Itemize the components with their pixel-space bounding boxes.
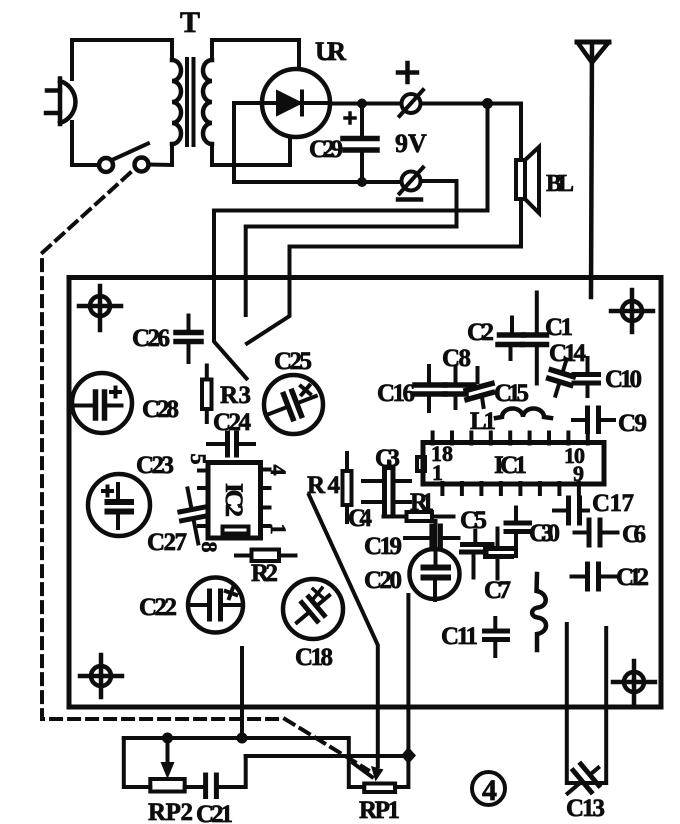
svg-text:C20: C20 — [364, 567, 402, 594]
svg-text:BL: BL — [546, 171, 574, 197]
svg-text:IC2: IC2 — [220, 483, 247, 517]
wire stub C22 to bottom rail — [240, 648, 244, 738]
svg-text:C8: C8 — [442, 345, 471, 372]
resistor R2 — [236, 550, 296, 562]
svg-text:8: 8 — [197, 542, 222, 553]
capacitor C29 — [343, 104, 377, 183]
svg-text:C12: C12 — [616, 564, 649, 591]
svg-text:C24: C24 — [213, 409, 252, 436]
wire bottom rail W1 — [124, 738, 364, 787]
capacitor C5 — [462, 531, 493, 578]
IC U1 body — [417, 443, 604, 485]
transformer T secondary coil — [203, 60, 212, 144]
circled figure 4 — [472, 772, 505, 807]
svg-text:C29: C29 — [309, 136, 343, 163]
capacitor C3 C4 plates — [363, 462, 410, 515]
svg-text:C9: C9 — [618, 410, 647, 437]
svg-text:5: 5 — [186, 454, 211, 465]
capacitor C2 — [498, 318, 524, 360]
capacitor C9 — [573, 408, 614, 432]
svg-text:C27: C27 — [147, 529, 187, 556]
svg-text:C2: C2 — [467, 319, 494, 346]
minus sign battery — [398, 197, 421, 202]
transformer T primary coil — [172, 60, 181, 144]
IC2 pins left — [199, 471, 208, 527]
capacitor C21 — [185, 756, 246, 797]
capacitor C1 — [523, 293, 547, 384]
svg-text:C15: C15 — [494, 380, 529, 407]
wire diagonal to RP1 wiper — [309, 495, 378, 766]
svg-text:C26: C26 — [132, 325, 170, 352]
capacitor C16 — [415, 366, 445, 411]
capacitor C8 — [445, 367, 474, 408]
IC U2 body — [208, 463, 261, 539]
svg-text:9V: 9V — [395, 129, 427, 158]
capacitor C24 — [208, 433, 254, 455]
potentiometer RP2 — [150, 738, 184, 792]
wire minus rail to pcb — [246, 181, 457, 315]
wire secondary loop — [212, 40, 299, 165]
resistor R4 — [343, 453, 352, 522]
svg-text:IC1: IC1 — [494, 452, 527, 479]
svg-text:C18: C18 — [295, 644, 333, 671]
svg-text:C4: C4 — [348, 505, 373, 532]
svg-text:9: 9 — [573, 461, 584, 486]
capacitor C7 — [486, 529, 512, 579]
mounting hole bottom-right — [613, 661, 655, 703]
svg-text:R2: R2 — [251, 560, 278, 587]
plus sign battery — [398, 63, 417, 82]
antenna — [577, 42, 609, 297]
mains plug — [46, 79, 75, 125]
node dot C29 top — [357, 99, 367, 109]
svg-text:C3: C3 — [375, 445, 400, 472]
battery plus terminal — [400, 90, 424, 116]
transformer core — [185, 57, 196, 147]
svg-text:C22: C22 — [139, 594, 177, 621]
svg-text:4: 4 — [482, 774, 497, 807]
PCB board outline — [69, 278, 661, 708]
svg-text:R4: R4 — [307, 472, 341, 499]
dashed linkage switch to RP1 — [42, 173, 368, 770]
capacitor C6 — [575, 520, 618, 545]
electrolytic C25 — [264, 375, 323, 434]
svg-text:C5: C5 — [460, 507, 487, 534]
svg-text:1: 1 — [432, 460, 443, 485]
inductor L1 — [496, 409, 551, 419]
svg-text:RP2: RP2 — [148, 799, 193, 824]
switch S — [99, 144, 149, 173]
svg-text:C11: C11 — [441, 623, 478, 650]
wire plus rail to speaker and pcb — [214, 104, 521, 379]
svg-text:C14: C14 — [549, 340, 587, 367]
electrolytic C28 — [72, 373, 132, 433]
wire speaker return to pcb — [247, 199, 521, 344]
svg-text:C17: C17 — [592, 490, 634, 517]
capacitor C17 — [554, 498, 588, 523]
IC1 pins top — [433, 433, 588, 444]
capacitor C15 — [466, 368, 493, 407]
mounting hole top-left — [79, 286, 121, 330]
wire UR right to plus terminal — [330, 102, 401, 106]
wire primary loop — [72, 40, 172, 165]
svg-text:RP1: RP1 — [359, 797, 400, 824]
wire UR left to minus rail — [234, 103, 401, 182]
node diamond RP1 — [401, 747, 416, 764]
svg-text:C19: C19 — [364, 533, 402, 560]
wire C13 left leg — [567, 624, 606, 783]
svg-text:C6: C6 — [622, 521, 646, 548]
capacitor C14 — [544, 356, 577, 399]
electrolytic C22 — [188, 578, 243, 633]
capacitor C26 — [176, 316, 201, 363]
svg-text:C30: C30 — [529, 520, 560, 547]
capacitor C10 — [574, 358, 599, 396]
mounting hole bottom-left — [80, 655, 122, 697]
svg-text:C13: C13 — [566, 795, 605, 822]
node dot C29 bottom — [357, 177, 367, 187]
svg-text:C28: C28 — [142, 396, 179, 423]
electrolytic C18 — [283, 579, 343, 639]
capacitor C12 — [572, 564, 616, 589]
inductor L2 coil — [532, 574, 546, 650]
speaker BL — [516, 147, 539, 213]
node dot RP2 wiper — [162, 733, 173, 744]
svg-text:C16: C16 — [377, 380, 415, 407]
capacitor C11 — [485, 618, 508, 656]
IC1 pins bottom — [442, 483, 579, 494]
svg-text:C23: C23 — [136, 452, 174, 479]
capacitor C19 — [405, 526, 459, 549]
wire C20 to RP1 — [395, 595, 408, 787]
mounting hole top-right — [611, 290, 653, 332]
svg-text:C7: C7 — [484, 577, 511, 604]
IC2 pins right — [261, 470, 270, 527]
capacitor C27 — [176, 486, 210, 546]
potentiometer RP1 — [353, 763, 395, 792]
svg-text:C1: C1 — [545, 314, 573, 341]
rectifier UR — [262, 69, 330, 137]
svg-text:4: 4 — [266, 465, 291, 476]
electrolytic C20 — [410, 521, 460, 600]
svg-text:T: T — [180, 6, 200, 39]
battery minus terminal — [400, 168, 424, 194]
svg-text:C25: C25 — [274, 348, 312, 375]
wire bottom rail W2 — [246, 754, 409, 758]
resistor R1 — [384, 512, 454, 521]
node dot plus rail — [482, 98, 493, 109]
svg-text:1: 1 — [266, 524, 291, 535]
node dot C21 riser — [237, 733, 248, 744]
svg-text:R1: R1 — [410, 489, 434, 516]
electrolytic C23 — [88, 474, 150, 536]
svg-text:UR: UR — [315, 37, 346, 66]
svg-text:R3: R3 — [220, 382, 251, 409]
resistor R3 — [202, 366, 212, 423]
capacitor C30 — [506, 508, 530, 557]
capacitor C13 — [559, 757, 608, 804]
svg-text:C21: C21 — [196, 801, 233, 824]
svg-text:C10: C10 — [605, 366, 642, 393]
wire RP2 loop left — [124, 738, 151, 787]
